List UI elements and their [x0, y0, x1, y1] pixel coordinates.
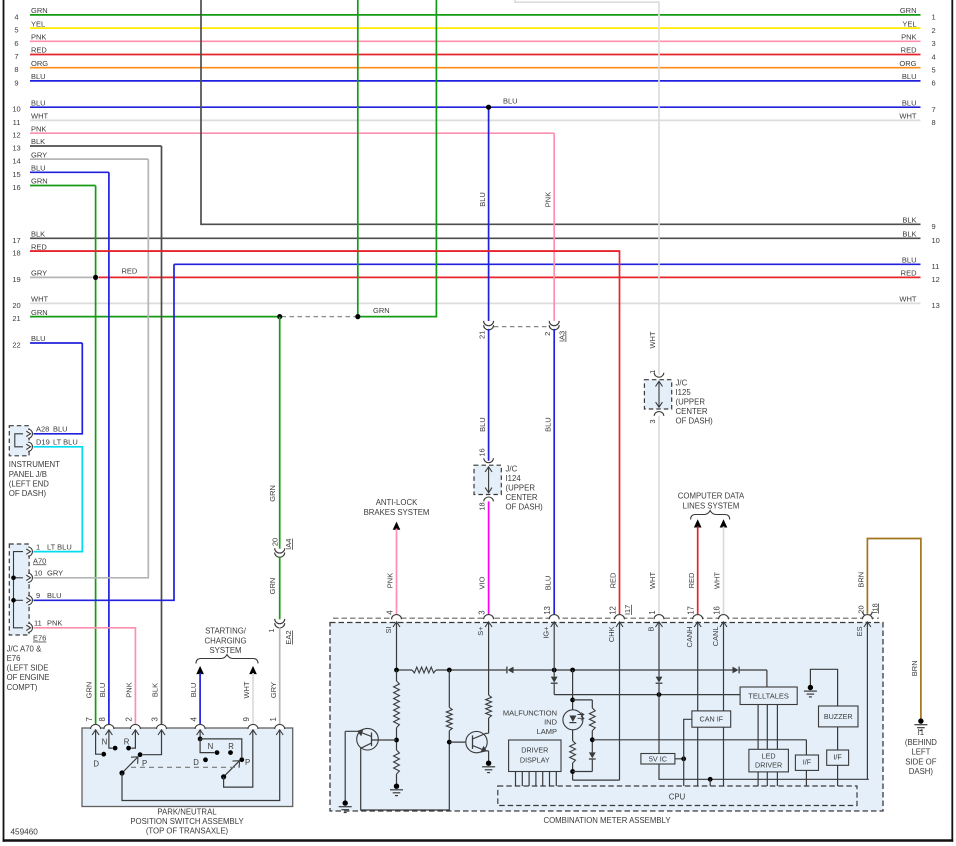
- svg-text:OF DASH): OF DASH): [9, 489, 47, 498]
- svg-text:11: 11: [34, 619, 42, 628]
- SI resistor chain: [396, 670, 398, 681]
- switch pin 3 arc: [157, 724, 167, 729]
- svg-text:9: 9: [242, 717, 251, 721]
- svg-text:(UPPER: (UPPER: [676, 398, 706, 407]
- switch pin 4 arc: [195, 724, 205, 729]
- 5V IC right dot and links: [675, 758, 684, 760]
- svg-text:P: P: [245, 758, 250, 767]
- svg-text:VIO: VIO: [478, 576, 487, 589]
- J/C pin 11 arc: [28, 623, 32, 632]
- rail y=694.6 to telltales: [554, 694, 740, 696]
- svg-text:CANL: CANL: [711, 627, 720, 647]
- svg-text:YEL: YEL: [31, 19, 45, 28]
- svg-text:GRN: GRN: [31, 308, 48, 317]
- meter pin internal arrow: [616, 622, 623, 627]
- vertical BLU wire x=554.2 IA3 to meter pin 13: [553, 329, 555, 618]
- wire 12 PNK horizontal: [30, 132, 554, 134]
- wire right 9 BLK from vertical x=201: [201, 223, 921, 225]
- meter pin internal arrow: [864, 622, 871, 627]
- svg-text:WHT: WHT: [648, 572, 657, 589]
- right switch D contact: [203, 757, 208, 762]
- vertical BLU x=488.6 connector to J/C I124: [488, 329, 490, 461]
- RED wire CANH with arrow to meter pin 17: [694, 519, 702, 527]
- J/B internal link: [15, 434, 23, 447]
- meter pin 3 S+ arc: [484, 615, 494, 620]
- park/neutral position switch assembly box: [82, 728, 293, 807]
- svg-text:R: R: [228, 742, 234, 751]
- svg-text:DISPLAY: DISPLAY: [520, 755, 550, 764]
- svg-text:BLU: BLU: [31, 98, 46, 107]
- J/B pin A28 arc: [28, 429, 32, 438]
- wire 19 RED right segment to right edge pin 12: [99, 276, 921, 278]
- wire 10 BLU horizontal: [30, 106, 921, 108]
- svg-text:GRN: GRN: [85, 682, 94, 699]
- in-line connector 20 I18 at meter ES pin: [863, 612, 873, 616]
- wire right 11 BLU from vertical x=174: [174, 263, 921, 265]
- vertical BLU wire x=108.9 wire15 down to switch pin 8: [108, 172, 110, 728]
- svg-text:4: 4: [932, 52, 936, 61]
- svg-text:A70: A70: [33, 556, 46, 565]
- switch pin 8 internal arrow: [105, 730, 112, 735]
- svg-text:RED: RED: [31, 242, 47, 251]
- svg-text:B: B: [646, 626, 655, 631]
- svg-text:BLU: BLU: [53, 425, 68, 434]
- svg-text:PARK/NEUTRAL: PARK/NEUTRAL: [157, 807, 217, 816]
- svg-text:BLK: BLK: [31, 137, 45, 146]
- svg-text:PNK: PNK: [901, 33, 916, 42]
- vertical WHT wire from top at x=515 to x=659: [515, 0, 659, 375]
- svg-text:6: 6: [14, 39, 18, 48]
- svg-text:CPU: CPU: [669, 792, 686, 801]
- WHT wire to starting system with arrow: [249, 666, 257, 674]
- svg-text:21: 21: [12, 314, 20, 323]
- svg-text:S+: S+: [476, 627, 485, 636]
- svg-text:DRIVER: DRIVER: [521, 745, 548, 754]
- svg-text:9: 9: [14, 78, 18, 87]
- vertical PNK wire ABS to meter pin 4: [396, 529, 398, 619]
- svg-text:ANTI-LOCK: ANTI-LOCK: [376, 498, 418, 507]
- CPU dashed box: [498, 786, 857, 806]
- right switch R contact: [228, 750, 233, 755]
- meter pin 12 CHK arc: [615, 615, 625, 620]
- svg-text:3: 3: [478, 610, 487, 614]
- svg-text:STARTING/: STARTING/: [205, 627, 247, 636]
- switch pin 3 internal to P contact: [143, 730, 162, 755]
- svg-text:1: 1: [36, 542, 40, 551]
- svg-text:(BEHIND: (BEHIND: [905, 738, 937, 747]
- Q2 emitter to ground: [488, 751, 490, 763]
- right switch common to pin 9 rail: [224, 730, 253, 787]
- vertical GRN wire x=279.7 down to connector IA4: [279, 317, 281, 549]
- svg-text:4: 4: [189, 717, 198, 722]
- svg-text:9: 9: [932, 222, 936, 231]
- svg-text:I18: I18: [870, 603, 879, 613]
- svg-text:13: 13: [543, 606, 552, 615]
- svg-text:RED: RED: [687, 572, 696, 588]
- J/B pin D19 arc: [28, 442, 32, 451]
- CANH CANL shafts: [697, 622, 699, 711]
- CHK shaft down: [619, 622, 621, 780]
- svg-text:SIDE OF: SIDE OF: [905, 757, 936, 766]
- wire 5 YEL horizontal: [30, 27, 921, 29]
- wire 21 GRN horizontal: [30, 316, 277, 318]
- svg-text:GRY: GRY: [31, 150, 47, 159]
- J/C pin 10 arc: [28, 573, 32, 582]
- switch pin 3 internal arrow: [158, 730, 165, 735]
- TELLTALES box: [740, 687, 797, 705]
- vertical BLU wire x=174 right-wire11 down to J/C A70 pin 9: [34, 264, 175, 600]
- svg-text:BLU: BLU: [478, 417, 487, 432]
- svg-text:WHT: WHT: [31, 295, 48, 304]
- switch pin 8 arc: [104, 724, 114, 729]
- meter pin 4 SI arc: [392, 615, 402, 620]
- svg-text:PNK: PNK: [31, 33, 46, 42]
- svg-text:(TOP OF TRANSAXLE): (TOP OF TRANSAXLE): [146, 827, 229, 836]
- svg-text:16: 16: [712, 606, 721, 615]
- malfunction lamp chain top: [572, 670, 574, 710]
- connector dashed link IA3: [494, 326, 549, 328]
- J/C internal bus: [14, 552, 24, 628]
- BUZZER box: [819, 706, 859, 727]
- junction dot wire21 x=279.7: [277, 314, 282, 319]
- wire 15 BLU horizontal: [30, 171, 109, 173]
- wire 6 PNK horizontal: [30, 40, 921, 42]
- svg-text:2: 2: [932, 26, 936, 35]
- vertical GRN wire x=95.6 wire16 down to switch pin 7: [95, 186, 97, 729]
- svg-text:RED: RED: [901, 269, 917, 278]
- svg-text:J/C A70 &: J/C A70 &: [7, 644, 42, 653]
- meter pin 17 CANH arc: [693, 615, 703, 620]
- svg-text:YEL: YEL: [902, 19, 916, 28]
- svg-text:DRIVER: DRIVER: [755, 761, 782, 770]
- internal ground near buzzer: [808, 685, 813, 690]
- lamp chain bottom to CHK: [573, 779, 620, 781]
- svg-text:GRY: GRY: [269, 682, 278, 698]
- left switch arm to P: [122, 757, 138, 773]
- switch mechanical dashed link: [131, 766, 235, 768]
- svg-text:E76: E76: [7, 654, 21, 663]
- svg-text:CANH: CANH: [685, 627, 694, 648]
- meter pin 16 CANL arc: [719, 615, 729, 620]
- svg-text:D19: D19: [36, 438, 50, 447]
- svg-text:12: 12: [932, 275, 940, 284]
- telltales to led driver lines: [757, 705, 759, 750]
- meter SI shaft down to bus: [396, 622, 398, 670]
- switch pin 2 internal arrow: [132, 730, 139, 735]
- svg-text:11: 11: [13, 118, 21, 127]
- svg-text:GRY: GRY: [31, 269, 47, 278]
- LED circle malfunction ind lamp: [563, 710, 583, 730]
- junction dot wire10 BLU x=488.6: [486, 105, 491, 110]
- svg-text:COMBINATION METER ASSEMBLY: COMBINATION METER ASSEMBLY: [543, 816, 671, 825]
- svg-text:N: N: [208, 742, 214, 751]
- I/F box 1: [795, 755, 818, 770]
- svg-text:INSTRUMENT: INSTRUMENT: [9, 460, 60, 469]
- wire 20 WHT horizontal: [30, 302, 921, 304]
- svg-text:I1: I1: [918, 728, 925, 737]
- svg-text:OF DASH): OF DASH): [676, 417, 714, 426]
- svg-text:PNK: PNK: [543, 192, 552, 207]
- bus corner down to telltales: [766, 670, 768, 687]
- svg-text:I125: I125: [676, 388, 692, 397]
- svg-text:POSITION SWITCH ASSEMBLY: POSITION SWITCH ASSEMBLY: [130, 817, 244, 826]
- svg-text:D: D: [93, 759, 99, 768]
- BRN wire from meter ES pin up and over to ground I1: [867, 539, 921, 719]
- wire 17 BLK horizontal: [30, 237, 921, 239]
- in-line connector pin21 on BLU x=488.6: [484, 321, 494, 326]
- junction dot wire21 x=357.8: [355, 314, 360, 319]
- buzzer top to internal ground: [810, 669, 837, 706]
- svg-text:MALFUNCTION: MALFUNCTION: [503, 709, 557, 718]
- wire 13 BLK horizontal: [30, 145, 162, 147]
- svg-text:15: 15: [12, 170, 20, 179]
- meter pin internal arrow: [656, 622, 663, 627]
- vertical GRN wire IA4 to connector EA2: [279, 557, 281, 620]
- switch pin 9 arc: [248, 724, 258, 729]
- switch pin 2 internal to R contact: [131, 730, 135, 748]
- svg-text:20: 20: [856, 605, 865, 613]
- vertical BLK wire x=201 from top to right wire 9: [200, 0, 202, 225]
- svg-text:BLK: BLK: [902, 216, 916, 225]
- svg-text:18: 18: [478, 502, 487, 510]
- svg-text:WHT: WHT: [899, 295, 916, 304]
- svg-text:LT BLU: LT BLU: [53, 438, 78, 447]
- resistor on bus: [412, 667, 436, 673]
- svg-text:17: 17: [687, 606, 696, 615]
- wire 19 GRY left segment: [30, 276, 93, 278]
- wire 16 GRN horizontal: [30, 185, 96, 187]
- I/F box 2: [827, 750, 849, 765]
- svg-text:13: 13: [12, 144, 20, 153]
- led driver to cpu lines: [757, 772, 759, 786]
- svg-text:CENTER: CENTER: [676, 407, 708, 416]
- svg-text:CHK: CHK: [607, 626, 616, 642]
- svg-text:PNK: PNK: [47, 619, 62, 628]
- svg-text:BLK: BLK: [31, 230, 45, 239]
- svg-text:14: 14: [12, 157, 20, 166]
- junction arc 3 below J/C I125: [654, 412, 664, 416]
- rail y=740 to I/F: [592, 739, 806, 741]
- svg-text:IND: IND: [544, 718, 558, 727]
- LED DRIVER box: [749, 749, 789, 772]
- svg-text:22: 22: [12, 341, 20, 350]
- vertical PNK wire x=554.2 from wire 12 to connector IA3: [553, 133, 555, 321]
- svg-text:BLK: BLK: [151, 683, 160, 697]
- switch pin 8 internal to N contact: [109, 730, 113, 748]
- svg-text:5: 5: [932, 66, 936, 75]
- svg-text:R: R: [124, 738, 130, 747]
- CAN IF box: [692, 711, 731, 727]
- svg-text:BLU: BLU: [902, 256, 917, 265]
- driver display pins: [515, 772, 517, 787]
- svg-text:IA3: IA3: [558, 331, 567, 342]
- vertical RED wire x=619.5 wire18 down to meter pin 12: [30, 251, 620, 618]
- svg-text:11: 11: [932, 262, 940, 271]
- diode pointing right on bus: [733, 667, 739, 674]
- WHT wire CANL with arrow to meter pin 16: [720, 519, 728, 527]
- meter pin internal arrow: [393, 622, 400, 627]
- svg-text:BLU: BLU: [902, 72, 917, 81]
- vertical BLK wire x=161.5 wire13 down to switch pin 3: [161, 146, 163, 728]
- svg-text:13: 13: [932, 301, 940, 310]
- svg-text:I/F: I/F: [833, 753, 842, 762]
- transistor Q1: [357, 728, 379, 750]
- switch pin 2 arc: [130, 724, 140, 729]
- svg-text:16: 16: [478, 448, 487, 456]
- svg-text:7: 7: [14, 52, 18, 61]
- svg-text:(LEFT SIDE: (LEFT SIDE: [7, 664, 49, 673]
- svg-text:CHARGING: CHARGING: [204, 636, 246, 645]
- svg-text:J/C: J/C: [676, 379, 688, 388]
- IG+ shaft and diode down: [553, 622, 555, 677]
- svg-text:BLK: BLK: [902, 230, 916, 239]
- vertical GRY wire EA2 to switch pin 1: [279, 627, 281, 728]
- switch pin 4 internal junction: [199, 730, 201, 739]
- svg-text:WHT: WHT: [713, 572, 722, 589]
- vertical VIO wire below I124 to meter pin 3: [488, 501, 490, 618]
- switch pin 1 arc: [275, 724, 285, 729]
- svg-text:DASH): DASH): [909, 767, 934, 776]
- svg-text:J/C: J/C: [506, 465, 518, 474]
- svg-text:12: 12: [12, 131, 20, 140]
- svg-text:I124: I124: [506, 474, 522, 483]
- svg-text:CENTER: CENTER: [506, 493, 538, 502]
- ground below SI chain: [394, 784, 399, 789]
- S+ shaft resistor to Q2: [488, 622, 490, 695]
- svg-text:GRY: GRY: [47, 569, 63, 578]
- meter pin internal arrow: [694, 622, 701, 627]
- svg-text:RED: RED: [609, 572, 618, 588]
- svg-text:BLU: BLU: [31, 72, 46, 81]
- svg-text:LT BLU: LT BLU: [47, 542, 72, 551]
- svg-text:N: N: [102, 738, 108, 747]
- combination meter assembly box: [330, 623, 883, 812]
- junction arc 16 above J/C I124: [484, 458, 494, 462]
- middle resistor chain x=449.3: [448, 670, 450, 707]
- svg-text:RED: RED: [901, 46, 917, 55]
- svg-text:2: 2: [543, 332, 552, 336]
- svg-text:3: 3: [932, 39, 936, 48]
- svg-text:PANEL J/B: PANEL J/B: [9, 470, 47, 479]
- J/C pin 1 arc: [28, 547, 32, 556]
- diode pointing left on bus: [508, 667, 514, 674]
- svg-text:BRN: BRN: [857, 572, 866, 588]
- B shaft diode and 5V IC: [658, 622, 660, 677]
- svg-text:1: 1: [648, 370, 657, 374]
- left switch common to pin 1 rail: [122, 730, 280, 801]
- svg-text:459460: 459460: [11, 828, 39, 837]
- switch pin 9 internal arrow: [250, 730, 257, 735]
- svg-text:1: 1: [648, 610, 657, 614]
- svg-text:18: 18: [12, 249, 20, 258]
- buzzer to I/F 2: [837, 727, 839, 750]
- svg-text:16: 16: [12, 183, 20, 192]
- svg-text:GRN: GRN: [31, 177, 48, 186]
- svg-text:IG+: IG+: [542, 627, 551, 639]
- brace computer data lines: [691, 511, 730, 520]
- right switch arm to P: [224, 761, 240, 777]
- in-line connector pin2 IA3 on x=554.2: [549, 321, 559, 326]
- svg-text:8: 8: [98, 717, 107, 721]
- svg-text:GRN: GRN: [31, 6, 48, 15]
- svg-text:BRN: BRN: [910, 660, 919, 676]
- svg-text:BLU: BLU: [543, 417, 552, 432]
- switch pin 7 internal arrow: [92, 730, 99, 735]
- svg-text:I17: I17: [623, 605, 632, 615]
- page border: [3, 0, 5, 842]
- svg-text:D: D: [193, 758, 199, 767]
- svg-text:8: 8: [14, 65, 18, 74]
- meter bus y=670: [397, 669, 413, 671]
- vertical GRY wire x=148.3 wire14 down to J/C A70 pin 10: [34, 159, 149, 578]
- lamp lower resistor: [572, 730, 574, 741]
- brace starting/charging: [196, 655, 258, 664]
- in-line connector 1 EA2: [275, 619, 285, 624]
- svg-text:ORG: ORG: [899, 59, 916, 68]
- svg-text:3: 3: [648, 419, 657, 423]
- svg-text:LINES SYSTEM: LINES SYSTEM: [683, 501, 740, 510]
- wire 11 WHT horizontal: [30, 119, 921, 121]
- svg-text:I/F: I/F: [803, 758, 812, 767]
- svg-text:BRAKES SYSTEM: BRAKES SYSTEM: [364, 508, 430, 517]
- svg-text:WHT: WHT: [242, 681, 251, 698]
- svg-text:SI: SI: [384, 627, 393, 634]
- vertical WHT wire below I125 to meter pin 1: [658, 416, 660, 618]
- svg-text:RED: RED: [122, 266, 138, 275]
- instrument panel J/B dashed box: [9, 426, 29, 456]
- in-line connector 20 IA4: [275, 548, 285, 553]
- svg-text:21: 21: [477, 331, 486, 339]
- svg-text:17: 17: [12, 236, 20, 245]
- svg-text:GRN: GRN: [268, 485, 277, 502]
- transistor Q2: [449, 741, 466, 743]
- svg-text:COMPUTER DATA: COMPUTER DATA: [678, 492, 745, 501]
- vertical GRN wire x=357.8 from top to wire 21 dot: [357, 0, 359, 317]
- wire 18 RED horizontal: [30, 250, 620, 252]
- vertical GRN wire x=436.4 from top corner to wire 21: [358, 0, 437, 317]
- svg-text:PNK: PNK: [386, 573, 395, 588]
- svg-text:1: 1: [267, 628, 276, 632]
- svg-text:CAN IF: CAN IF: [700, 715, 724, 724]
- svg-text:COMPT): COMPT): [7, 683, 38, 692]
- J/C pin 9 arc: [28, 596, 32, 605]
- meter connector dashed line: [333, 617, 879, 619]
- parallel resistor and diode chain x=592.3: [589, 708, 595, 731]
- meter pin internal arrow: [551, 622, 558, 627]
- svg-text:1: 1: [932, 13, 936, 22]
- wire 9 BLU horizontal: [30, 80, 921, 82]
- svg-text:GRN: GRN: [373, 306, 390, 315]
- svg-text:PNK: PNK: [31, 124, 46, 133]
- svg-text:19: 19: [12, 275, 20, 284]
- wire 4 GRN horizontal: [30, 14, 921, 16]
- svg-text:PNK: PNK: [125, 682, 134, 697]
- svg-text:9: 9: [36, 591, 40, 600]
- LT BLU wire J/B D19 to J/C A70 pin 1: [34, 447, 83, 552]
- svg-text:BLU: BLU: [189, 683, 198, 698]
- BLU wire to starting system with arrow: [196, 666, 204, 674]
- svg-text:BLU: BLU: [98, 683, 107, 698]
- svg-text:3: 3: [151, 717, 160, 721]
- svg-text:BLU: BLU: [47, 591, 62, 600]
- svg-text:20: 20: [271, 538, 280, 546]
- svg-text:IA4: IA4: [284, 539, 293, 550]
- DRIVER DISPLAY box: [509, 740, 561, 772]
- PNK wire from J/C E76 pin 11 down to switch pin 2: [34, 628, 136, 728]
- svg-text:4: 4: [14, 12, 18, 21]
- svg-text:A28: A28: [36, 425, 49, 434]
- J/C A70 E76 dashed box: [9, 544, 29, 635]
